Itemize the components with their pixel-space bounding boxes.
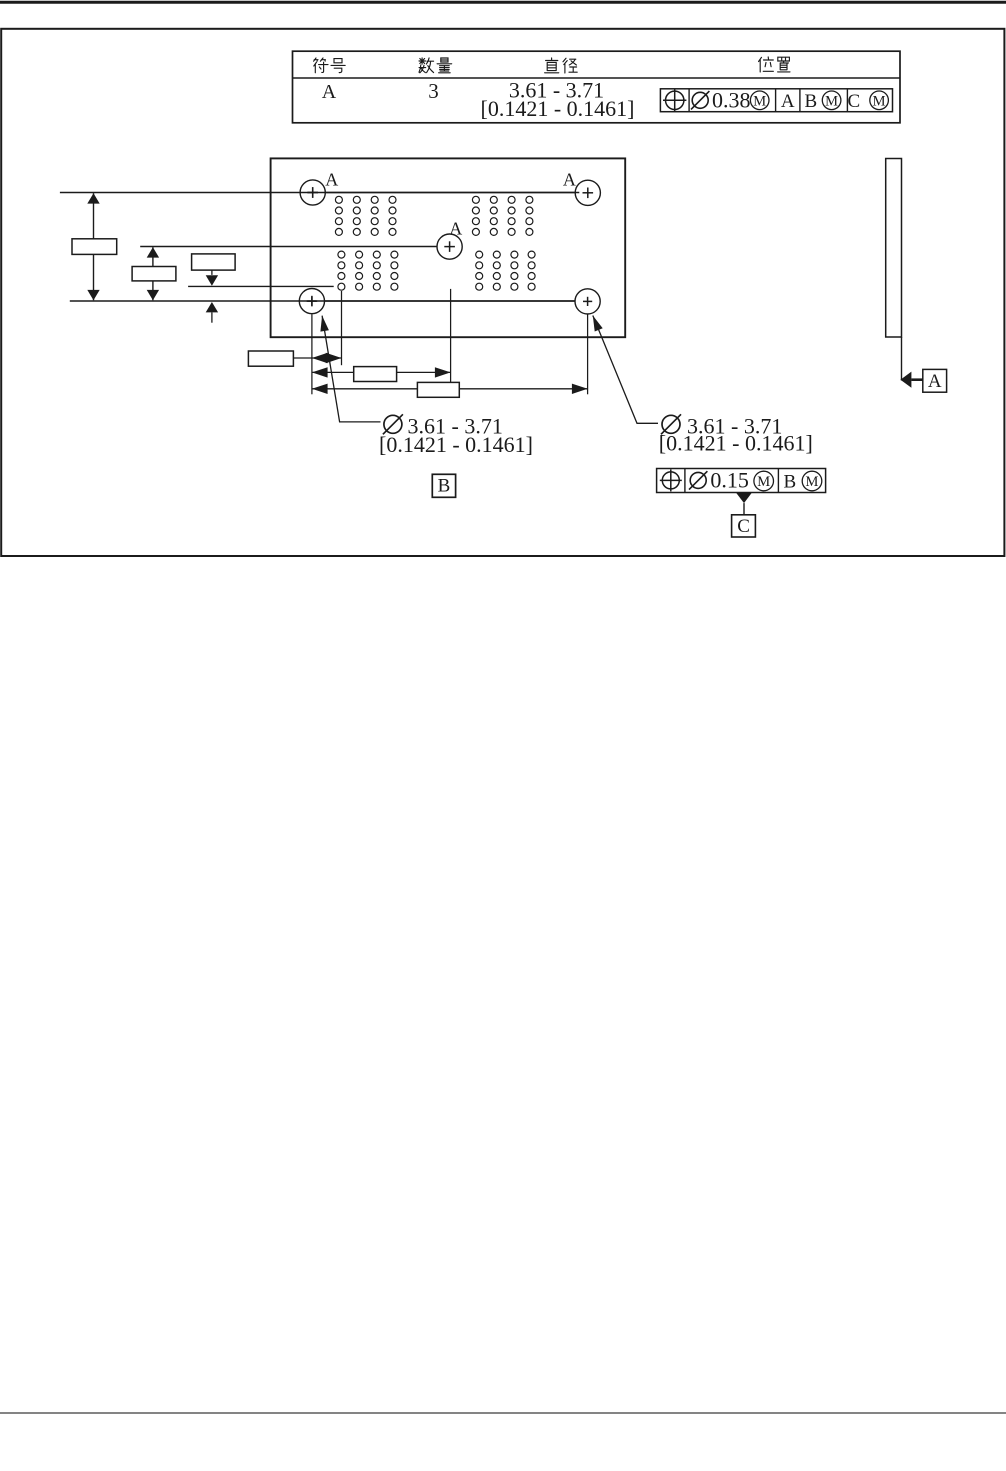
svg-text:A: A [928, 371, 942, 392]
svg-text:[0.1421 - 0.1461]: [0.1421 - 0.1461] [379, 432, 533, 457]
svg-text:A: A [322, 81, 337, 103]
svg-text:C: C [737, 516, 750, 537]
svg-text:B: B [805, 91, 818, 112]
svg-text:A: A [449, 219, 462, 239]
svg-text:M: M [825, 93, 838, 109]
svg-text:M: M [873, 93, 886, 109]
svg-text:A: A [781, 91, 795, 112]
svg-text:0.38: 0.38 [712, 87, 751, 112]
svg-text:0.15: 0.15 [710, 468, 749, 493]
svg-text:A: A [563, 170, 576, 190]
svg-text:C: C [847, 91, 860, 112]
svg-text:3: 3 [428, 79, 439, 103]
svg-text:[0.1421 - 0.1461]: [0.1421 - 0.1461] [659, 431, 813, 456]
svg-text:B: B [783, 472, 796, 493]
svg-text:[0.1421 - 0.1461]: [0.1421 - 0.1461] [481, 96, 635, 121]
svg-text:M: M [753, 93, 766, 109]
svg-text:M: M [757, 474, 770, 490]
svg-text:M: M [806, 474, 819, 490]
svg-text:A: A [325, 170, 338, 190]
svg-text:B: B [438, 476, 451, 497]
